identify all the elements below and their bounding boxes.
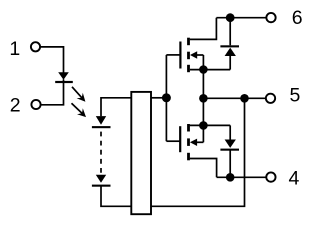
- wire Q1 body tie: [202, 55, 204, 70]
- diode D2: [220, 140, 239, 151]
- wire D1 anode vertical: [229, 56, 231, 70]
- wire D2 anode vertical: [229, 125, 231, 139]
- wire Q2 body tie: [202, 125, 204, 142]
- wire driver box bottom return to pin 5 rail: [151, 98, 245, 206]
- wire photodiode chain bottom to driver box: [101, 186, 131, 206]
- wire LED cathode to pin2: [41, 79, 64, 104]
- junction dot pin5 rail / driver return: [240, 94, 249, 103]
- junction dot gate node: [162, 93, 171, 102]
- junction dot pin5 rail / source bus: [199, 94, 208, 103]
- MOSFET Q1 gate bar: [179, 42, 181, 69]
- terminal pin 1: [31, 42, 40, 51]
- wire D1 cathode vertical: [229, 18, 231, 46]
- wire Q2 source line: [190, 124, 231, 126]
- terminal pin 4: [266, 172, 275, 181]
- terminal pin 5: [266, 94, 275, 103]
- MOSFET Q1 channel: [187, 38, 190, 73]
- junction dot Q1 source: [199, 65, 208, 74]
- photodiode PD2: [92, 175, 111, 187]
- LED light emission arrow 2: [72, 103, 87, 117]
- wire Q2 drain to pin 4 rail: [190, 159, 217, 178]
- svg-text:5: 5: [289, 85, 300, 107]
- MOSFET Q2 channel: [187, 124, 190, 160]
- svg-text:4: 4: [288, 168, 299, 190]
- LED (input): [55, 72, 73, 83]
- wire Q1 source line: [190, 69, 230, 71]
- junction dot top rail / D1: [226, 13, 235, 22]
- svg-text:2: 2: [10, 95, 21, 117]
- MOSFET Q2 body arrow: [190, 139, 204, 146]
- wire pin1 to LED anode: [40, 47, 63, 73]
- wire top rail to pin 6: [216, 17, 266, 19]
- svg-text:1: 1: [9, 38, 20, 60]
- wire Q2 gate lead: [166, 140, 180, 142]
- wire pin 5 rail: [203, 97, 266, 99]
- junction dot pin4 rail / D2: [226, 173, 235, 182]
- wire common source vertical: [202, 70, 204, 126]
- wire Q1 drain to top rail: [190, 18, 217, 40]
- wire D2 cathode vertical: [229, 151, 231, 178]
- wire dashed between photodiodes: [100, 132, 102, 175]
- wire gate bus vertical: [165, 55, 167, 141]
- driver box: [131, 92, 151, 214]
- photodiode PD1: [92, 116, 111, 128]
- wire Q1 gate lead: [166, 54, 180, 56]
- terminal pin 2: [31, 100, 40, 109]
- junction dot Q2 source: [199, 121, 208, 130]
- diode D1: [220, 45, 239, 56]
- MOSFET Q2 gate bar: [179, 126, 181, 152]
- svg-text:6: 6: [292, 7, 303, 29]
- wire pin 4 rail: [217, 176, 267, 178]
- MOSFET Q1 body arrow: [190, 51, 203, 58]
- LED light emission arrow 1: [72, 87, 85, 102]
- wire driver box top output to gate node: [151, 97, 166, 99]
- terminal pin 6: [266, 13, 275, 22]
- wire photodiode chain top to driver box: [101, 98, 131, 117]
